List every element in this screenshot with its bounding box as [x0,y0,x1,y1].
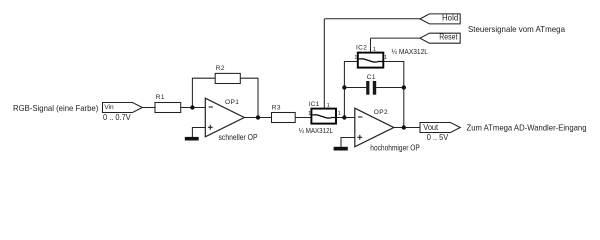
wire OP1 noninverting input to ground [192,128,205,138]
svg-text:Steuersignale vom ATmega: Steuersignale vom ATmega [468,24,565,34]
analog switch IC2 [354,45,428,68]
resistor R2 [215,65,240,84]
wire Reset net horizontal [371,37,421,39]
svg-text:Vout: Vout [423,123,438,132]
svg-text:R3: R3 [272,104,281,111]
svg-text:¼ MAX312L: ¼ MAX312L [392,47,429,56]
svg-text:OP1: OP1 [225,99,239,106]
svg-text:0 .. 5V: 0 .. 5V [427,133,449,142]
svg-text:1: 1 [308,111,311,117]
analog switch IC1 [299,101,341,135]
junction node OP2 inverting input [342,115,346,119]
svg-text:R1: R1 [156,94,165,101]
wire Hold net horizontal [324,18,420,20]
svg-text:1: 1 [338,111,341,117]
wire Reset net vertical to IC2 control [370,38,372,61]
wire OP2 noninverting input to ground [341,138,355,148]
junction node OP2 output [402,125,406,129]
wire OP1 output to R3 [244,117,271,119]
output flag Vout [420,123,460,143]
junction node C1 right [402,85,406,89]
wire node B up to IC2 left pin [344,62,357,118]
wire C1 left branch [344,87,366,89]
wire C1 right branch [376,87,404,89]
svg-text:schneller OP: schneller OP [219,133,258,142]
svg-text:OP2: OP2 [374,109,388,116]
svg-text:Zum ATmega AD-Wandler-Eingang: Zum ATmega AD-Wandler-Eingang [467,122,587,132]
wire R3 to IC1 [295,117,311,119]
ground GND2 [334,147,348,151]
capacitor C1 [366,74,376,95]
resistor R1 [155,94,181,113]
wire Hold net vertical to IC1 control [323,19,325,116]
junction node OP1 output [256,115,260,119]
svg-text:C1: C1 [367,74,376,81]
svg-text:IC2: IC2 [356,45,367,52]
svg-text:hochohmiger OP: hochohmiger OP [370,143,420,152]
svg-text:R2: R2 [216,65,225,72]
svg-text:0 .. 0.7V: 0 .. 0.7V [103,113,131,122]
svg-text:Hold: Hold [442,13,459,22]
input flag Hold [420,13,460,24]
svg-text:¼ MAX312L: ¼ MAX312L [299,126,333,135]
svg-text:IC1: IC1 [309,101,320,108]
svg-text:Reset: Reset [439,33,458,42]
svg-text:1: 1 [327,103,330,109]
wire feedback node up to R2 [192,78,215,107]
input flag Vin [103,103,143,123]
svg-text:1: 1 [384,55,387,61]
wire Vin to R1 [142,107,155,109]
junction node after R1 [190,105,194,109]
input flag Reset [420,33,460,44]
op-amp OP1 [205,98,257,142]
ground GND1 [185,137,199,141]
junction node C1 left [342,85,346,89]
svg-text:Vin: Vin [104,104,114,111]
wire IC1 to OP2 inverting input [336,117,355,119]
svg-text:1: 1 [354,55,357,61]
wire R2 to OP1 output node [240,78,258,117]
wire IC2 right pin down to OP2 output [383,62,404,128]
op-amp OP2 [355,108,420,152]
svg-text:RGB-Signal (eine Farbe): RGB-Signal (eine Farbe) [13,103,98,113]
wire OP2 output to Vout flag [394,127,420,129]
svg-text:1: 1 [373,47,376,53]
wire R1 to OP1 inverting input [181,107,206,109]
resistor R3 [272,104,296,122]
